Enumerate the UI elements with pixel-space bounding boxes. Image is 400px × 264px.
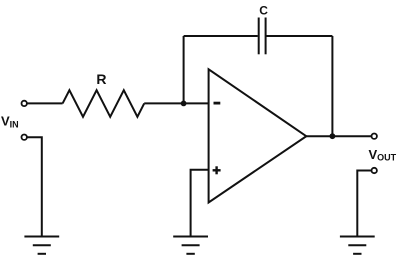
wire lower right to ground <box>357 171 371 237</box>
capacitor C plate right <box>265 18 267 55</box>
ground right <box>340 237 375 254</box>
wire non-inverting input <box>191 170 209 236</box>
ground left <box>24 237 59 254</box>
node A junction dot <box>181 101 187 107</box>
wire resistor to inverting input <box>144 102 208 104</box>
node B junction dot <box>330 133 336 139</box>
wire output <box>306 135 371 137</box>
wire feedback right vertical <box>331 36 333 136</box>
capacitor C plate left <box>258 18 260 55</box>
wire feedback top left <box>184 35 258 37</box>
op-amp inverting input marker - <box>214 102 221 105</box>
svg-text:VOUT: VOUT <box>369 147 397 163</box>
wire input lead <box>27 102 62 104</box>
op-amp non-inverting input marker + <box>213 166 221 174</box>
op-amp U1 triangle <box>209 69 307 202</box>
wire feedback top right <box>267 35 333 37</box>
input terminal VIN <box>22 101 27 106</box>
terminal lower right <box>372 168 377 173</box>
wire feedback left vertical <box>183 36 185 103</box>
svg-text:R: R <box>96 71 106 87</box>
output terminal VOUT <box>372 134 377 139</box>
svg-text:VIN: VIN <box>1 114 19 130</box>
ground op-amp <box>173 237 208 254</box>
svg-text:C: C <box>259 3 268 17</box>
wire lower left to ground <box>27 137 42 236</box>
terminal lower left <box>22 135 27 140</box>
resistor R <box>63 90 145 117</box>
